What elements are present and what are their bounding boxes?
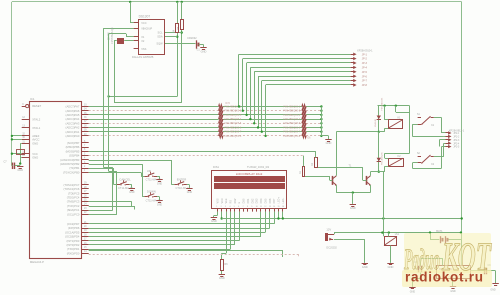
svg-text:JP-8: JP-8 (362, 84, 368, 87)
svg-text:1: 1 (216, 206, 217, 208)
svg-text:JP2-4: JP2-4 (453, 143, 460, 145)
watermark radiokot text (404, 234, 492, 285)
label DIS1 (213, 165, 219, 169)
wire X2 down (114, 41, 116, 103)
wire T1 base from R1 (304, 176, 333, 180)
svg-text:GND: GND (211, 219, 217, 223)
svg-text:9: 9 (251, 206, 252, 208)
ground S2 (129, 185, 135, 195)
svg-text:FM14BDQ05-6: FM14BDQ05-6 (283, 126, 300, 129)
svg-text:FM14BDQ05-6: FM14BDQ05-6 (225, 126, 242, 129)
svg-text:(TXD)PD1: (TXD)PD1 (67, 247, 80, 251)
battery BAT1 (430, 229, 462, 243)
wire relay rail down (383, 172, 385, 237)
diode D2 flyback (377, 158, 381, 162)
svg-text:(INT1)PD3: (INT1)PD3 (67, 239, 80, 243)
svg-text:DB0: DB0 (243, 198, 246, 203)
svg-text:14: 14 (273, 206, 275, 208)
svg-text:VEE: VEE (225, 198, 228, 203)
svg-text:GND: GND (129, 191, 135, 194)
svg-text:(ADC3)PA3: (ADC3)PA3 (66, 121, 80, 125)
wire K1 contact to JP2 (412, 118, 446, 137)
svg-text:(T1)PB1: (T1)PB1 (69, 166, 80, 170)
LCD pin stubs (218, 208, 283, 212)
svg-text:(T0/XCK)PB0: (T0/XCK)PB0 (63, 170, 80, 174)
resistor R2 base resistor (311, 158, 317, 168)
svg-text:SQW: SQW (156, 42, 163, 46)
wire SDA net (165, 1, 179, 97)
wire PB1 to CANCEL (89, 168, 117, 185)
wire T2 base from R2 (316, 164, 367, 180)
wire PB0 to UP (89, 173, 145, 177)
svg-text:7: 7 (243, 206, 244, 208)
svg-text:(RXD)PD0: (RXD)PD0 (67, 251, 80, 255)
pushbutton S3 DOWN (144, 190, 161, 203)
resistor R1 base resistor (299, 167, 305, 177)
IC U1 ATmega16 body (30, 102, 82, 259)
wire PC3 run (89, 202, 132, 207)
ground DC jack (362, 264, 368, 269)
svg-text:12: 12 (264, 206, 266, 208)
svg-text:JP2-2: JP2-2 (453, 137, 460, 139)
IC1 left pins (22, 103, 42, 159)
svg-text:(MOSI)PB5: (MOSI)PB5 (66, 149, 80, 153)
svg-text:TUXGR_16X2_R2: TUXGR_16X2_R2 (247, 165, 270, 169)
svg-text:XP2B-0910-1: XP2B-0910-1 (357, 49, 373, 53)
svg-text:GND: GND (157, 203, 163, 206)
svg-text:VCC: VCC (32, 152, 38, 156)
svg-text:(OC1A)PD5: (OC1A)PD5 (65, 230, 80, 234)
wire VCC to DS1307 (129, 1, 134, 23)
svg-text:(ADC0)PA0: (ADC0)PA0 (66, 134, 80, 138)
capacitor C8 (414, 261, 422, 272)
buzzer SP1 (384, 233, 400, 246)
svg-text:FM14BDQ05-8: FM14BDQ05-8 (225, 135, 242, 138)
IC1 right pins PB (60, 141, 89, 175)
svg-text:VCC: VCC (141, 21, 147, 25)
relay contact K2 (417, 153, 435, 166)
resistor R4 pull-up (173, 24, 179, 34)
svg-text:GND: GND (350, 206, 356, 210)
svg-text:FM14BDQ05-7: FM14BDQ05-7 (225, 131, 242, 134)
wire relay supply top (378, 105, 410, 107)
svg-text:XTAL1: XTAL1 (32, 126, 41, 130)
ground buzzer (387, 264, 393, 269)
wire PB4 to R1 (89, 156, 304, 167)
svg-text:XP2B-0911-1: XP2B-0911-1 (449, 128, 465, 132)
svg-text:GND: GND (17, 168, 23, 172)
pushbutton S2 CANCEL (117, 178, 134, 191)
svg-text:FM14BDQ05-5: FM14BDQ05-5 (283, 122, 300, 125)
svg-text:JP2-1: JP2-1 (453, 133, 460, 135)
svg-text:FM14BDQ05-8: FM14BDQ05-8 (283, 135, 300, 138)
svg-text:GND: GND (388, 265, 394, 269)
svg-text:VCC: VCC (221, 198, 224, 203)
svg-text:DIS1: DIS1 (213, 165, 219, 169)
ground power 1 (409, 288, 415, 294)
svg-text:GND: GND (187, 191, 193, 194)
svg-text:GND: GND (490, 288, 496, 291)
ground S1 (156, 176, 162, 185)
svg-text:DALLAS 12055VB: DALLAS 12055VB (132, 55, 154, 59)
svg-text:FM14BDQ05-2: FM14BDQ05-2 (225, 110, 242, 113)
svg-text:radiokot.ru: radiokot.ru (405, 270, 483, 285)
capacitor C7 (4, 161, 22, 170)
wire LCD backlight anode (277, 212, 279, 220)
wire relay K1 left branch (378, 106, 380, 133)
wires LCD data staircase to IC1 (89, 212, 275, 250)
svg-text:GND: GND (157, 183, 163, 186)
wire LCD backlight cathode (282, 212, 284, 220)
wire emitters to ground (336, 185, 370, 204)
svg-text:(ADC6)PA6: (ADC6)PA6 (66, 109, 80, 113)
connector JP2 pins (446, 131, 461, 148)
watermark radiokot background (402, 233, 492, 287)
svg-text:(SS)PB4: (SS)PB4 (69, 154, 80, 158)
vertical net label (381, 97, 383, 165)
svg-text:IC1: IC1 (30, 97, 35, 101)
wire PB3 to ENTER (89, 160, 175, 185)
svg-text:SDA: SDA (157, 35, 163, 39)
svg-text:JP2-5: JP2-5 (453, 147, 460, 149)
svg-text:(ADC2)PA2: (ADC2)PA2 (66, 126, 80, 130)
svg-text:10: 10 (256, 206, 258, 208)
ground near IC1 (17, 167, 23, 173)
wire VCC top rail (12, 1, 462, 3)
ground power 3 (490, 284, 498, 292)
wire bottom power net (412, 259, 495, 287)
label D6 (308, 138, 312, 140)
wire jack ground (334, 239, 365, 263)
svg-text:11: 11 (260, 206, 262, 208)
wire LCD VDD power rail long (220, 212, 462, 220)
IC DS1307 label (139, 14, 151, 18)
svg-text:FM14BDQ05-4: FM14BDQ05-4 (225, 118, 242, 121)
IC1 label (30, 97, 35, 101)
pushbutton S4 ENTER (174, 178, 190, 191)
svg-text:DB1: DB1 (247, 198, 250, 203)
svg-text:X1: X1 (141, 35, 145, 39)
svg-text:GND: GND (32, 155, 38, 159)
wire VCC left rail (11, 2, 13, 166)
svg-text:SCL: SCL (158, 31, 164, 35)
wire buzzer connections (389, 233, 391, 263)
wire VCC to rail (11, 153, 22, 155)
svg-text:JP-6: JP-6 (362, 75, 368, 78)
wire SCL net (165, 1, 183, 103)
svg-text:6: 6 (238, 206, 239, 208)
svg-text:(ICP)PD6: (ICP)PD6 (68, 226, 80, 230)
wire relay K2 branch (378, 132, 380, 173)
svg-text:DOWN: DOWN (147, 190, 156, 194)
wire LCD VSS to ground (214, 212, 218, 217)
svg-text:ENTER: ENTER (177, 178, 186, 182)
svg-text:GND: GND (410, 291, 416, 294)
LCD display DIS1 body (212, 171, 287, 209)
svg-text:XTAL2: XTAL2 (32, 118, 41, 122)
wire right rail down to power section (461, 2, 463, 240)
label XP2B-0910-1 (357, 49, 373, 53)
svg-text:DCJ0202: DCJ0202 (326, 247, 337, 250)
svg-text:JP-7: JP-7 (362, 80, 368, 83)
ground power 2 (450, 287, 456, 294)
svg-text:(TCK)PC2: (TCK)PC2 (67, 204, 80, 208)
svg-text:(AIN1/OC0)PB3: (AIN1/OC0)PB3 (60, 158, 80, 162)
battery G1 CR2032 (165, 36, 204, 51)
ground S3 (156, 197, 162, 207)
svg-text:FM14BDQ05-5: FM14BDQ05-5 (225, 122, 242, 125)
relay K2 coil (388, 155, 403, 167)
wire T2 collector to relays (370, 172, 378, 176)
label TUXGR 16X2 R2 (247, 165, 270, 169)
svg-text:5: 5 (234, 206, 235, 208)
svg-text:3: 3 (225, 206, 226, 208)
svg-text:FM14BDQ05-2: FM14BDQ05-2 (283, 110, 300, 113)
capacitor C10 (17, 150, 25, 155)
svg-text:JP-3: JP-3 (362, 62, 368, 65)
wire PD1 TXD long (89, 250, 283, 257)
svg-text:DB2: DB2 (251, 198, 254, 203)
svg-text:(INT0)PD2: (INT0)PD2 (67, 243, 80, 247)
svg-text:GND: GND (450, 290, 456, 293)
label 12V (326, 227, 331, 231)
ground contrast resistor (219, 271, 225, 280)
wire T1 collector (336, 132, 377, 176)
svg-text:JP-2: JP-2 (362, 58, 368, 61)
ground for G1 (200, 48, 206, 54)
wire PC2 run (89, 206, 135, 209)
crystal Q2 32.768kHz (108, 27, 134, 44)
svg-text:R/W: R/W (234, 198, 237, 204)
svg-text:CR2032: CR2032 (187, 36, 197, 40)
svg-text:1N4148: 1N4148 (375, 119, 377, 127)
resistor array R13-R20 right column (283, 105, 306, 138)
wire X1 (109, 34, 134, 38)
wire battery to 12V rail (429, 231, 462, 265)
svg-text:DB5: DB5 (264, 198, 267, 203)
svg-text:CRYSTALS-QU: CRYSTALS-QU (111, 27, 114, 44)
ground right array (325, 140, 331, 146)
wire K2 coil connections (379, 153, 410, 172)
svg-text:X2: X2 (141, 39, 145, 43)
diode D1 flyback (375, 116, 381, 128)
svg-text:FM14BDQ05-4: FM14BDQ05-4 (283, 118, 300, 121)
svg-text:(SDA)PC1: (SDA)PC1 (67, 208, 80, 212)
svg-text:CANCEL: CANCEL (119, 178, 131, 182)
IC1 right pins PA (66, 104, 89, 138)
svg-text:GND: GND (201, 49, 207, 53)
svg-text:16: 16 (282, 206, 284, 208)
svg-text:FM14BDQ05-1: FM14BDQ05-1 (283, 105, 300, 108)
wire SCL horizontal run (114, 102, 182, 104)
svg-text:(AIN0/INT2)PB2: (AIN0/INT2)PB2 (60, 162, 80, 166)
svg-text:(TOSC1)PC6: (TOSC1)PC6 (63, 187, 79, 191)
transistor T1 (333, 176, 337, 186)
svg-text:12V: 12V (326, 227, 331, 231)
resistor R3 pull-up (177, 20, 184, 31)
svg-text:FM14BDQ05-3: FM14BDQ05-3 (283, 114, 300, 117)
svg-text:LED-: LED- (282, 198, 285, 204)
wires PA rows to resistor arrays (89, 105, 323, 137)
wire AVCC to rail (11, 138, 22, 140)
svg-text:RS: RS (230, 200, 233, 204)
svg-text:GND: GND (326, 141, 332, 145)
DC jack X1 (325, 233, 337, 250)
svg-text:FM14BDQ05: FM14BDQ05 (381, 97, 383, 111)
svg-text:(ADC1)PA1: (ADC1)PA1 (66, 130, 80, 134)
svg-text:LS1: LS1 (395, 233, 400, 236)
IC3 power supervisor body (437, 266, 471, 279)
ground LCD (211, 218, 217, 223)
svg-text:DB3: DB3 (256, 198, 259, 203)
svg-text:(TDO)PC4: (TDO)PC4 (67, 196, 80, 200)
svg-text:2: 2 (221, 206, 222, 208)
svg-text:(TMS)PC3: (TMS)PC3 (67, 200, 80, 204)
wire PD0 RXD long (89, 254, 299, 257)
connector JP1 pins (238, 53, 368, 138)
svg-text:FM14BDQ05: FM14BDQ05 (381, 151, 383, 165)
svg-text:LCD DISPLAY 16x2: LCD DISPLAY 16x2 (236, 172, 263, 176)
wire common rail of right array (321, 107, 328, 140)
wire LCD contrast to resistor (222, 212, 227, 260)
IC2 DS1307 RTC body (134, 20, 170, 55)
label MEGA16-P (30, 260, 44, 264)
svg-text:(TDI)PC5: (TDI)PC5 (68, 191, 80, 195)
transistor T2 (367, 176, 371, 186)
svg-text:VBACKUP: VBACKUP (141, 27, 152, 30)
svg-text:13: 13 (269, 206, 271, 208)
svg-text:GND: GND (32, 142, 38, 146)
svg-text:DB7: DB7 (273, 198, 276, 203)
LCD pin labels (216, 197, 285, 208)
svg-text:(ADC4)PA4: (ADC4)PA4 (66, 117, 80, 121)
svg-text:GND: GND (362, 265, 368, 269)
svg-text:(MISO)PB6: (MISO)PB6 (66, 145, 80, 149)
label XP2B-0911-1 (449, 128, 465, 132)
wire K2 contact to JP2 (412, 140, 446, 169)
svg-text:VSS: VSS (141, 47, 146, 51)
svg-text:(ADC7)PA7: (ADC7)PA7 (66, 105, 80, 109)
svg-text:(OC1B)PD4: (OC1B)PD4 (65, 235, 80, 239)
svg-text:RESET: RESET (32, 104, 41, 108)
svg-text:DS1307: DS1307 (139, 14, 151, 18)
label DS1307 value (132, 55, 154, 59)
ground S4 (186, 185, 192, 195)
pushbutton S1 UP (144, 169, 161, 182)
svg-text:FM14BDQ05-3: FM14BDQ05-3 (225, 114, 242, 117)
wire 12V top (334, 231, 462, 234)
resistor R21 contrast (221, 260, 229, 271)
svg-text:JP-5: JP-5 (362, 71, 368, 74)
svg-text:15: 15 (277, 206, 279, 208)
svg-text:(SCL)PC0: (SCL)PC0 (67, 212, 80, 216)
wire K1 coil connections (379, 106, 410, 154)
svg-text:UP: UP (147, 169, 151, 173)
svg-text:8: 8 (247, 206, 248, 208)
relay K1 coil (388, 116, 402, 128)
wire PB5 to R2 (89, 151, 316, 157)
svg-text:FM14BDQ05-7: FM14BDQ05-7 (283, 131, 300, 134)
svg-text:LED+: LED+ (278, 197, 281, 204)
IC1 right pins PD (65, 222, 89, 256)
capacitor C9 (485, 264, 492, 274)
svg-text:DB6: DB6 (269, 198, 272, 203)
svg-text:(TOSC2)PC7: (TOSC2)PC7 (63, 183, 79, 187)
svg-text:AVCC: AVCC (32, 138, 39, 142)
svg-text:4: 4 (229, 206, 230, 208)
svg-text:(SCK)PB7: (SCK)PB7 (67, 141, 80, 145)
wire SDA horizontal run (89, 34, 178, 215)
svg-text:(ADC5)PA5: (ADC5)PA5 (66, 113, 80, 117)
relay contact K1 (417, 114, 435, 127)
wire PB2 to DOWN (89, 164, 145, 197)
svg-text:MEGA16-P: MEGA16-P (30, 260, 44, 264)
svg-text:VSS: VSS (216, 198, 219, 203)
wire VBACKUP net (89, 28, 134, 210)
svg-text:D=5: D=5 (226, 103, 231, 105)
wire GND pins down (20, 144, 22, 164)
svg-text:JP-1: JP-1 (362, 53, 368, 56)
IC1 right pins PC (63, 183, 88, 217)
label D5 (226, 103, 231, 105)
ground transistors (350, 205, 356, 210)
wire AREF to rail (11, 135, 22, 137)
svg-text:BAT1: BAT1 (436, 229, 443, 233)
svg-text:GND: GND (219, 276, 225, 280)
svg-text:(OC2)PD7: (OC2)PD7 (67, 222, 80, 226)
svg-text:JP2-3: JP2-3 (453, 140, 460, 142)
resistor array R5-R12 left column (219, 105, 242, 138)
svg-text:JP-4: JP-4 (362, 67, 368, 70)
svg-text:AREF: AREF (32, 134, 40, 138)
svg-text:DB4: DB4 (260, 198, 263, 203)
